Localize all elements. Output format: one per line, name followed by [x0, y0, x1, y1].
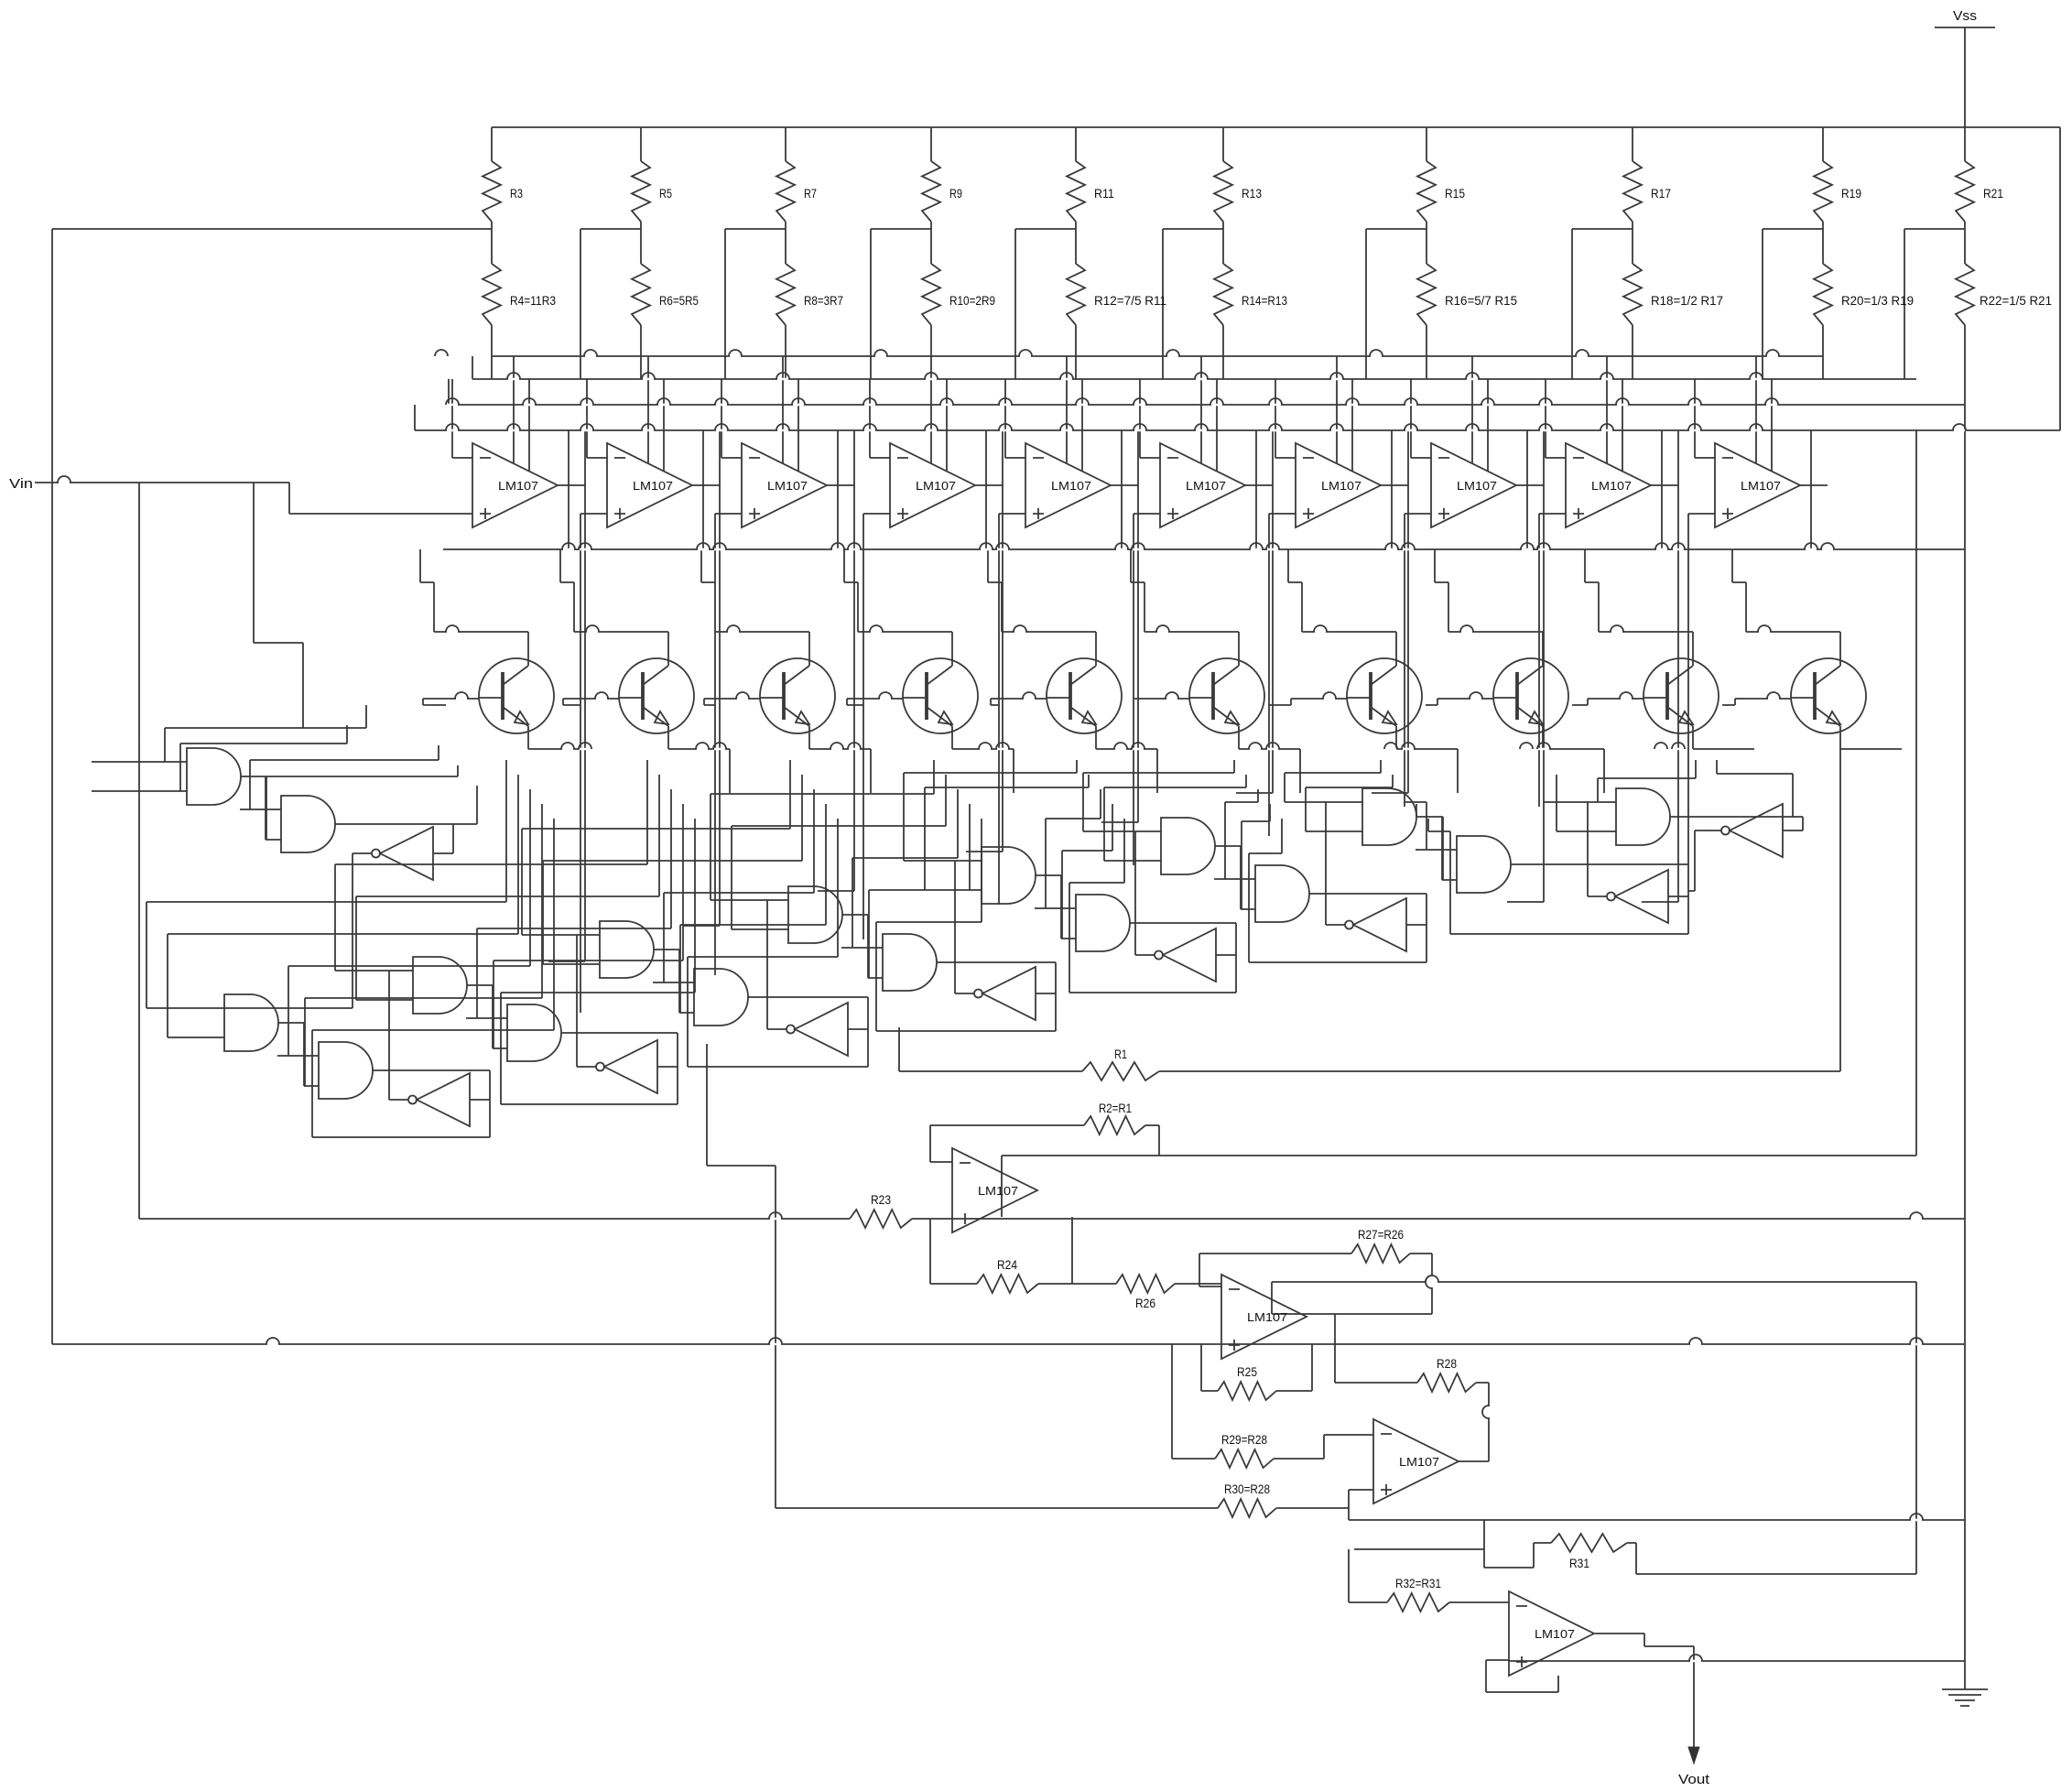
- svg-text:R9: R9: [949, 186, 962, 201]
- svg-text:LM107: LM107: [916, 479, 956, 493]
- svg-text:LM107: LM107: [1321, 479, 1361, 493]
- svg-text:R5: R5: [659, 186, 672, 201]
- svg-text:Vss: Vss: [1953, 8, 1977, 24]
- svg-text:LM107: LM107: [1457, 479, 1497, 493]
- svg-text:R21: R21: [1983, 186, 2003, 201]
- svg-text:Vin: Vin: [9, 476, 33, 492]
- svg-text:R7: R7: [804, 186, 817, 201]
- svg-text:R26: R26: [1135, 1296, 1155, 1310]
- svg-text:R16=5/7 R15: R16=5/7 R15: [1445, 293, 1517, 308]
- svg-text:LM107: LM107: [498, 479, 538, 493]
- svg-text:R22=1/5 R21: R22=1/5 R21: [1980, 293, 2052, 308]
- svg-text:LM107: LM107: [1399, 1455, 1439, 1469]
- svg-text:R28: R28: [1437, 1356, 1457, 1371]
- svg-text:R3: R3: [510, 186, 523, 201]
- svg-text:LM107: LM107: [767, 479, 808, 493]
- svg-text:R29=R28: R29=R28: [1221, 1432, 1267, 1447]
- svg-text:Vout: Vout: [1678, 1772, 1710, 1787]
- svg-text:R11: R11: [1094, 186, 1114, 201]
- svg-text:R8=3R7: R8=3R7: [804, 293, 843, 308]
- svg-text:R23: R23: [871, 1192, 891, 1207]
- svg-text:R19: R19: [1841, 186, 1861, 201]
- svg-text:R6=5R5: R6=5R5: [659, 293, 699, 308]
- svg-text:R13: R13: [1242, 186, 1262, 201]
- svg-text:LM107: LM107: [1591, 479, 1632, 493]
- svg-text:R15: R15: [1445, 186, 1465, 201]
- svg-text:R17: R17: [1651, 186, 1671, 201]
- svg-text:R30=R28: R30=R28: [1224, 1482, 1270, 1496]
- svg-text:R24: R24: [997, 1257, 1017, 1272]
- svg-text:LM107: LM107: [1741, 479, 1781, 493]
- svg-text:LM107: LM107: [1051, 479, 1091, 493]
- svg-text:LM107: LM107: [1186, 479, 1226, 493]
- svg-text:R10=2R9: R10=2R9: [949, 293, 995, 308]
- svg-text:LM107: LM107: [633, 479, 673, 493]
- svg-text:R31: R31: [1569, 1556, 1589, 1570]
- svg-text:R12=7/5 R11: R12=7/5 R11: [1094, 293, 1166, 308]
- svg-text:R14=R13: R14=R13: [1242, 293, 1287, 308]
- svg-text:R4=11R3: R4=11R3: [510, 293, 556, 308]
- svg-text:R32=R31: R32=R31: [1395, 1576, 1441, 1590]
- svg-text:R20=1/3 R19: R20=1/3 R19: [1841, 293, 1914, 308]
- svg-text:R1: R1: [1114, 1047, 1127, 1061]
- svg-text:R18=1/2 R17: R18=1/2 R17: [1651, 293, 1723, 308]
- svg-text:LM107: LM107: [978, 1184, 1018, 1198]
- svg-text:LM107: LM107: [1247, 1310, 1287, 1324]
- svg-text:R27=R26: R27=R26: [1358, 1227, 1404, 1242]
- svg-text:LM107: LM107: [1535, 1627, 1575, 1641]
- svg-text:R2=R1: R2=R1: [1099, 1101, 1132, 1115]
- svg-text:R25: R25: [1237, 1364, 1257, 1379]
